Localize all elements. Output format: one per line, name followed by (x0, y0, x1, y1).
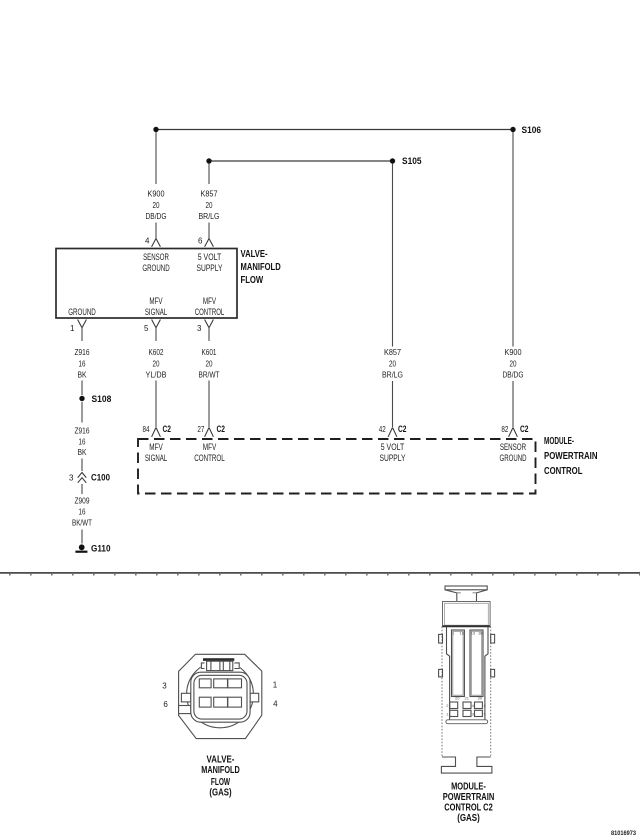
svg-text:Z916: Z916 (75, 348, 90, 357)
connector C2 base foot (441, 757, 492, 773)
svg-text:6: 6 (198, 236, 203, 245)
connector side tab left upper (181, 693, 190, 702)
svg-text:20: 20 (153, 201, 160, 210)
wire label Z916 16 BK (2) (75, 426, 90, 457)
pin label SENSOR GROUND (142, 252, 170, 273)
svg-text:GROUND: GROUND (68, 307, 96, 317)
terminal cavity row1 col3 (228, 679, 242, 688)
svg-text:VALVE-: VALVE- (241, 249, 268, 260)
pin label GROUND (68, 307, 96, 317)
svg-text:81016973: 81016973 (611, 831, 637, 837)
svg-text:19: 19 (471, 631, 476, 636)
wire K602 segment from pin 5 (155, 328, 157, 341)
svg-text:DB/DG: DB/DG (503, 371, 524, 380)
svg-text:SIGNAL: SIGNAL (145, 307, 167, 317)
svg-text:CONTROL: CONTROL (544, 466, 583, 477)
svg-text:K602: K602 (149, 348, 164, 357)
connector side tab right (250, 693, 259, 702)
connector C100 pin 3 (69, 473, 110, 483)
svg-text:K857: K857 (201, 190, 218, 199)
svg-text:3: 3 (162, 681, 167, 690)
svg-text:C2: C2 (398, 424, 407, 434)
svg-text:4: 4 (145, 236, 150, 245)
svg-text:POWERTRAIN: POWERTRAIN (443, 792, 495, 803)
wire continuation K900 to connector (155, 223, 157, 239)
svg-text:5: 5 (144, 324, 149, 333)
connector C2 side tab left upper (439, 634, 443, 643)
svg-text:42: 42 (379, 425, 386, 434)
connector housing inner (194, 675, 247, 719)
svg-text:POWERTRAIN: POWERTRAIN (544, 451, 598, 462)
terminal cavity row2 col3 (228, 697, 242, 707)
wire label K601 20 BR/WT (199, 348, 220, 379)
svg-text:BR/LG: BR/LG (382, 371, 403, 380)
pin label 5 VOLT SUPPLY (PCM) (380, 442, 406, 463)
slot pin numbers (452, 631, 483, 701)
svg-text:C2: C2 (520, 424, 529, 434)
svg-text:GROUND: GROUND (500, 453, 527, 463)
svg-text:16: 16 (79, 508, 86, 517)
svg-text:BR/WT: BR/WT (199, 370, 220, 379)
component name VALVE-MANIFOLD FLOW (241, 249, 281, 286)
svg-text:16: 16 (79, 359, 86, 368)
svg-text:C2: C2 (217, 424, 226, 434)
pin 84 C2 connector fork (143, 424, 172, 437)
svg-text:18: 18 (460, 631, 465, 636)
svg-text:GROUND: GROUND (142, 263, 170, 273)
svg-text:C100: C100 (91, 473, 110, 483)
connector C2 drawing: top tab (445, 586, 487, 602)
svg-text:SENSOR: SENSOR (500, 442, 527, 452)
svg-text:S108: S108 (92, 394, 112, 404)
svg-text:S106: S106 (522, 125, 542, 135)
svg-text:FLOW: FLOW (211, 777, 231, 788)
svg-text:K857: K857 (384, 348, 401, 357)
svg-text:1: 1 (70, 324, 75, 333)
pin label MFV CONTROL (PCM) (194, 442, 225, 463)
connector C2 side tab right lower (491, 669, 495, 677)
wire label K900 20 DB/DG (146, 190, 167, 222)
wire label K857 20 BR/LG (199, 190, 220, 222)
wire K857 vertical to pin 6 (208, 164, 210, 185)
connector housing outer (191, 672, 250, 722)
svg-text:S105: S105 (402, 156, 422, 166)
pin label MFV SIGNAL (145, 296, 167, 317)
svg-text:MFV: MFV (203, 442, 217, 452)
pin 82 C2 connector fork (501, 424, 528, 437)
svg-text:84: 84 (143, 425, 150, 434)
connector C2 top block (443, 602, 491, 627)
connector C2 cavity row1 col1 (450, 702, 458, 709)
connector C2 side tab left lower (439, 669, 443, 677)
pin 1 connector fork (70, 320, 86, 334)
svg-text:20: 20 (510, 359, 517, 368)
svg-text:MANIFOLD: MANIFOLD (201, 765, 240, 776)
wire segment to C100 (81, 459, 83, 472)
node junction dot left on S105 bus (206, 158, 211, 163)
svg-text:VALVE-: VALVE- (207, 755, 235, 766)
wire segment from C100 (81, 484, 83, 494)
svg-text:27: 27 (197, 425, 204, 434)
wire Z916 segment from pin 1 (81, 328, 83, 341)
svg-text:20: 20 (389, 359, 396, 368)
connector C2 cavity row2 col2 (463, 710, 471, 716)
pin label MFV SIGNAL (PCM) (145, 442, 167, 463)
svg-text:MODULE-: MODULE- (544, 436, 574, 447)
svg-text:4: 4 (273, 700, 278, 709)
svg-text:82: 82 (501, 425, 508, 434)
connector face VALVE-MANIFOLD FLOW: outer octagon (179, 654, 262, 738)
wire K857 vertical from S105 (392, 164, 394, 347)
svg-text:(GAS): (GAS) (457, 813, 480, 824)
svg-text:FLOW: FLOW (241, 275, 264, 286)
svg-text:DB/DG: DB/DG (146, 212, 167, 221)
connector C2 slot right (470, 630, 483, 697)
wire bus S105 horizontal (209, 160, 393, 162)
svg-text:38: 38 (478, 631, 483, 636)
wire segment to S108 (81, 381, 83, 396)
connector C2 slot left (452, 630, 465, 697)
connector C2 side tab right upper (491, 634, 495, 643)
svg-text:SENSOR: SENSOR (143, 252, 169, 262)
pin 42 C2 connector fork (379, 424, 407, 437)
connector latch top bar (201, 656, 240, 672)
module name MODULE-POWERTRAIN CONTROL (544, 436, 598, 477)
pin 4 connector fork (145, 236, 160, 247)
terminal cavity row2 col1 (199, 697, 211, 707)
svg-text:1: 1 (273, 681, 278, 690)
svg-text:3: 3 (69, 473, 74, 482)
svg-text:YL/DB: YL/DB (146, 370, 167, 379)
connector body circle (187, 661, 254, 728)
svg-text:BK: BK (78, 370, 88, 379)
wire K900 segment to PCM (512, 381, 514, 427)
wire K857 segment to PCM (392, 381, 394, 427)
svg-text:Z909: Z909 (75, 497, 90, 506)
svg-text:MFV: MFV (149, 442, 163, 452)
connector C2 cavity row1 col2 (463, 702, 471, 709)
connector C2 cavity row1 col3 (475, 702, 483, 709)
separator line (0, 572, 640, 575)
svg-text:Z916: Z916 (75, 426, 90, 435)
wire label Z909 16 BK/WT (72, 497, 92, 528)
terminal cavity row2 col2 (214, 697, 228, 707)
module box POWERTRAIN CONTROL (dashed) (138, 439, 536, 494)
node S108 (79, 394, 111, 404)
wire label Z916 16 BK (75, 348, 90, 379)
pin label SENSOR GROUND (PCM) (500, 442, 527, 463)
component box VALVE-MANIFOLD FLOW (56, 249, 237, 319)
svg-text:21: 21 (465, 696, 470, 701)
svg-text:K900: K900 (505, 348, 522, 357)
svg-text:MFV: MFV (203, 296, 216, 306)
svg-text:6: 6 (163, 700, 168, 709)
svg-text:5 VOLT: 5 VOLT (198, 252, 222, 262)
svg-text:20: 20 (206, 359, 213, 368)
svg-text:G110: G110 (91, 544, 111, 554)
svg-text:BR/LG: BR/LG (199, 212, 220, 221)
connector C2 body outline (442, 627, 491, 758)
wire label K857 20 BR/LG (right) (382, 348, 403, 380)
node S105 (390, 156, 422, 166)
svg-text:K900: K900 (148, 190, 165, 199)
svg-text:MANIFOLD: MANIFOLD (241, 262, 281, 273)
wire continuation K857 to connector (208, 223, 210, 239)
svg-text:BK: BK (78, 448, 88, 457)
svg-text:SUPPLY: SUPPLY (380, 453, 406, 463)
svg-text:CONTROL: CONTROL (194, 453, 225, 463)
svg-text:3: 3 (197, 324, 202, 333)
pin label 5 VOLT SUPPLY (197, 252, 223, 273)
wire K900 vertical from S106 (512, 132, 514, 347)
connector caption VALVE-MANIFOLD FLOW (GAS) (201, 755, 240, 799)
connector caption MODULE-POWERTRAIN CONTROL C2 (GAS) (443, 781, 495, 824)
svg-text:MFV: MFV (149, 296, 162, 306)
wire K900 vertical to pin 4 (155, 132, 157, 184)
wire K601 segment from pin 3 (208, 328, 210, 341)
wire segment to G110 (81, 530, 83, 544)
ground G110 (75, 544, 110, 554)
connector C2 cavity row2 col1 (450, 710, 458, 716)
wire label K900 20 DB/DG (right) (503, 348, 524, 380)
pin 5 connector fork (144, 320, 160, 334)
wire segment from S108 (81, 402, 83, 423)
svg-text:CONTROL: CONTROL (195, 307, 225, 317)
pin 6 connector fork (198, 236, 213, 247)
pin label MFV CONTROL (195, 296, 225, 317)
connector C2 lower bar (446, 720, 488, 724)
node junction dot left on S106 bus (153, 127, 158, 132)
svg-text:16: 16 (79, 437, 86, 446)
cavity tiny numbers (446, 703, 486, 716)
terminal cavity row1 col2 (214, 679, 228, 688)
wire bus S106 horizontal (156, 129, 513, 131)
svg-text:C2: C2 (163, 424, 172, 434)
wire K602 segment to PCM (155, 381, 157, 428)
svg-text:20: 20 (153, 359, 160, 368)
wire K601 segment to PCM (208, 381, 210, 428)
node S106 (510, 125, 541, 135)
svg-text:BK/WT: BK/WT (72, 519, 92, 528)
svg-text:5 VOLT: 5 VOLT (381, 442, 405, 452)
terminal cavity row1 col1 (199, 679, 211, 688)
svg-text:(GAS): (GAS) (209, 787, 231, 798)
svg-text:MODULE-: MODULE- (451, 781, 486, 792)
svg-text:20: 20 (455, 696, 460, 701)
svg-text:SUPPLY: SUPPLY (197, 263, 223, 273)
pin 3 connector fork (197, 320, 213, 334)
connector side tab left lower (179, 706, 191, 714)
connector C2 cavity row2 col3 (475, 710, 483, 716)
pin 27 C2 connector fork (197, 424, 225, 437)
svg-text:20: 20 (206, 201, 213, 210)
svg-text:CONTROL C2: CONTROL C2 (444, 802, 493, 813)
wire label K602 20 YL/DB (146, 348, 167, 379)
svg-text:SIGNAL: SIGNAL (145, 453, 167, 463)
svg-text:39: 39 (478, 696, 483, 701)
svg-text:K601: K601 (202, 348, 217, 357)
